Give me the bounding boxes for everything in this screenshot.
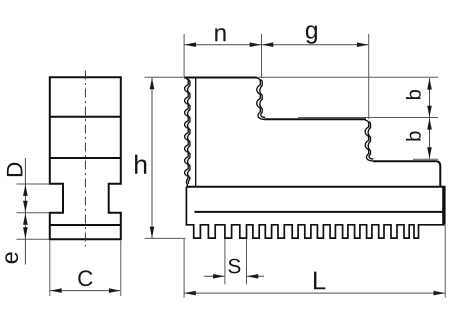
right view serrated clamping face left inner [187, 79, 190, 184]
dimension C projection line right [120, 240, 122, 296]
dimension b1 arrow down [427, 106, 432, 118]
dimension D and e vertical dimension line [24, 158, 26, 265]
dimension n-g middle extension line [261, 34, 263, 78]
dimension n arrow left [184, 42, 196, 47]
dimension n extension line left [183, 34, 185, 77]
label e [5, 252, 18, 263]
right view second step serrated edge inner [368, 122, 374, 160]
dimension b top extension line [257, 76, 438, 78]
dimension b2 arrow up [427, 118, 432, 130]
label b second [406, 131, 421, 140]
right view band bottom line [195, 211, 445, 213]
dimension g extension line right [368, 34, 370, 119]
right view first step serrated edge outer [257, 78, 265, 119]
left view horizontal face line 2 [50, 157, 121, 159]
right view bottom serration teeth [186, 187, 444, 238]
label L [314, 272, 325, 290]
dimension e extension line bottom [17, 238, 50, 240]
left view jaw body outline [50, 77, 121, 239]
dimension D arrow down [23, 201, 28, 213]
dimension g line [262, 44, 368, 46]
dimension n line [185, 44, 262, 46]
dimension L arrow right [434, 291, 446, 296]
label S [228, 259, 240, 274]
dimension L arrow left [184, 291, 196, 296]
label n [215, 28, 225, 41]
right view top edge [184, 77, 257, 79]
dimension L line [185, 292, 445, 294]
dimension C line [50, 290, 120, 292]
dimension n arrow right [250, 42, 262, 47]
dimension b1 arrow up [427, 78, 432, 90]
dimension S extension line left [224, 239, 226, 284]
dimension S arrow pointing left [247, 274, 258, 279]
dimension b bottom extension line [413, 158, 438, 160]
right view serrated clamping face left outer [184, 78, 188, 187]
right view second step serrated edge outer [365, 120, 373, 161]
dimension b vertical line [429, 78, 431, 159]
dimension C arrow right [109, 288, 121, 293]
right view first step surface [265, 118, 367, 120]
dimension b2 arrow down [427, 147, 432, 159]
dimension b middle extension line [298, 117, 438, 119]
dimension S left arrow line [204, 275, 225, 277]
dimension D arrow up [23, 184, 28, 196]
label h [135, 155, 146, 174]
dimension S arrow pointing right [213, 274, 225, 279]
right view first step serrated edge inner [259, 80, 265, 118]
dimension h arrow up [150, 78, 155, 90]
dimension S extension line right [246, 239, 248, 284]
right view guide band outline [186, 187, 444, 225]
label C [78, 270, 92, 286]
label g [306, 25, 317, 43]
dimension h bottom extension line [145, 237, 186, 239]
dimension L extension line left [183, 239, 185, 298]
dimension S right arrow line [247, 275, 264, 277]
dimension L extension line right [444, 225, 446, 298]
dimension C arrow left [50, 288, 62, 293]
dimension D extension line top [17, 183, 50, 185]
dimension g arrow right [357, 42, 369, 47]
dimension h arrow down [150, 227, 155, 239]
right view serration root line [195, 78, 197, 186]
right view second step surface with corner [373, 161, 440, 186]
label D [7, 163, 23, 176]
left view horizontal face line 1 [50, 116, 121, 118]
dimension h top extension line [145, 76, 184, 78]
dimension g arrow left [262, 42, 274, 47]
dimension D extension line bottom [17, 212, 50, 214]
left view base strip line [50, 224, 121, 226]
dimension e arrow down [23, 227, 28, 239]
dimension h vertical line [151, 78, 153, 238]
right view band right edge thick [442, 187, 444, 224]
dimension C projection line left [49, 240, 51, 296]
dimension e arrow up [23, 213, 28, 225]
left view vertical centerline [84, 71, 86, 247]
label b first [406, 90, 421, 99]
